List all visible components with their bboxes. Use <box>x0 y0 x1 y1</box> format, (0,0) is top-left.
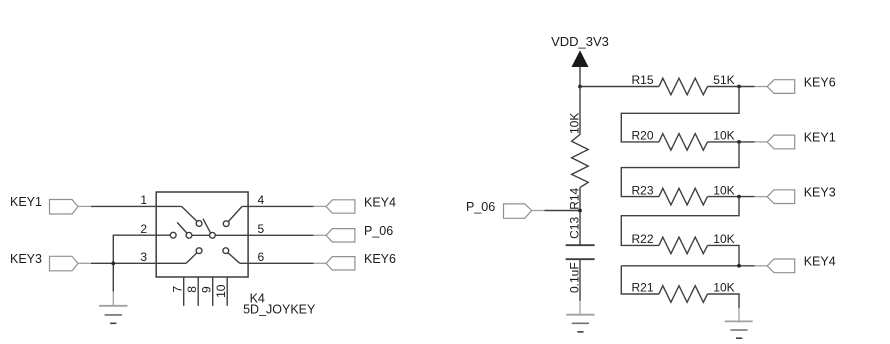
svg-text:KEY6: KEY6 <box>804 75 836 89</box>
net flag P_06 <box>466 200 545 218</box>
wire R23 node down to R22 row <box>621 197 739 246</box>
svg-text:10K: 10K <box>713 183 734 197</box>
wire R23 to KEY3 flag <box>708 196 755 198</box>
svg-text:5D_JOYKEY: 5D_JOYKEY <box>243 302 316 316</box>
wire R15 node down to R20 row <box>621 87 739 142</box>
wire R20 node down to R23 row <box>621 142 739 197</box>
resistor R15 51K <box>632 73 735 95</box>
svg-text:P_06: P_06 <box>466 200 495 214</box>
wire K4 pin 4 to KEY4 flag <box>242 205 313 207</box>
contact circle C with lever <box>203 219 215 239</box>
net flag KEY3 (right) <box>755 185 836 203</box>
common wire segment C to pin5 <box>215 234 313 236</box>
switch contact pin1 <box>182 206 203 226</box>
ground (below R21) <box>725 308 753 338</box>
K4 pin 7 <box>170 277 184 306</box>
svg-text:R20: R20 <box>632 129 654 143</box>
svg-text:KEY4: KEY4 <box>804 255 836 269</box>
svg-text:6: 6 <box>258 250 265 264</box>
svg-text:1: 1 <box>140 193 147 207</box>
ground (below C13) <box>566 301 594 332</box>
wire KEY4 row down to R21 row <box>621 266 659 294</box>
junction on KEY3 wire <box>111 262 115 266</box>
svg-text:51K: 51K <box>713 73 734 87</box>
wire R14 to capacitor C13 <box>579 188 581 246</box>
svg-text:R23: R23 <box>632 183 654 197</box>
svg-text:VDD_3V3: VDD_3V3 <box>551 34 609 49</box>
wire R20 to KEY1 flag <box>708 141 755 143</box>
switch contact pin3 <box>186 248 202 263</box>
common wire segment B-C <box>192 234 210 236</box>
svg-text:10: 10 <box>214 284 228 298</box>
svg-text:7: 7 <box>170 286 184 293</box>
svg-text:8: 8 <box>185 286 199 293</box>
net flag KEY1 <box>10 195 91 214</box>
wire KEY3 to K4 pin 3 <box>91 262 186 264</box>
svg-text:KEY3: KEY3 <box>804 185 836 199</box>
wire K4 pin 6 to KEY6 flag <box>240 262 314 264</box>
wire VDD rail down to R14 <box>579 87 581 135</box>
svg-text:R22: R22 <box>632 232 654 246</box>
net flag KEY1 (right) <box>755 131 836 149</box>
svg-text:KEY6: KEY6 <box>364 252 396 266</box>
resistor R23 10K <box>632 183 735 205</box>
wire C13 to ground <box>579 259 581 301</box>
resistor R21 10K <box>632 281 735 303</box>
svg-text:R15: R15 <box>632 73 654 87</box>
svg-text:P_06: P_06 <box>364 224 393 238</box>
svg-text:10K: 10K <box>713 129 734 143</box>
net flag P_06 (left circuit) <box>314 224 394 242</box>
wire KEY4 row <box>621 265 754 267</box>
K4 pin 10 <box>214 277 228 306</box>
wire K4 pin 2 to ground <box>113 235 156 291</box>
common wire segment A <box>156 234 170 236</box>
junction VDD rail <box>578 85 582 89</box>
net flag KEY6 <box>755 75 836 93</box>
net flag KEY4 <box>755 255 836 273</box>
capacitor C13 0.1uF <box>566 217 595 293</box>
resistor R22 10K <box>632 232 735 254</box>
ground (below K4) <box>99 292 128 324</box>
svg-text:9: 9 <box>199 286 213 293</box>
joystick K4 body <box>156 192 248 277</box>
K4 pin 8 <box>185 277 199 306</box>
svg-text:2: 2 <box>140 222 147 236</box>
net flag KEY4 (left circuit) <box>314 195 397 213</box>
junction R20 output <box>737 140 741 144</box>
svg-text:KEY4: KEY4 <box>364 195 396 209</box>
svg-text:KEY1: KEY1 <box>804 131 836 145</box>
svg-text:3: 3 <box>140 250 147 264</box>
wire R21 to ground <box>708 294 740 308</box>
contact circle A <box>170 232 176 238</box>
net flag KEY3 <box>10 252 91 271</box>
junction P_06 node <box>578 209 582 213</box>
net flag KEY6 (left circuit) <box>314 252 397 270</box>
wire KEY1 to K4 pin 1 <box>91 205 182 207</box>
wire R22 output down to KEY4 row <box>708 245 740 265</box>
switch contact pin6 <box>223 248 240 263</box>
svg-text:4: 4 <box>258 193 265 207</box>
svg-text:10K: 10K <box>713 232 734 246</box>
junction R15 output <box>737 85 741 89</box>
wire R15 to KEY6 flag <box>708 86 755 88</box>
wire P_06 to R14/C13 node <box>545 210 581 212</box>
power symbol VDD_3V3 <box>551 34 609 87</box>
resistor R14 10K (vertical) <box>568 113 589 210</box>
svg-text:R21: R21 <box>632 281 654 295</box>
svg-text:C13: C13 <box>568 217 582 239</box>
switch contact pin4 <box>223 206 242 226</box>
svg-text:5: 5 <box>258 222 265 236</box>
K4 pin 9 <box>199 277 213 306</box>
wire VDD rail to R15 <box>580 86 659 88</box>
svg-text:KEY3: KEY3 <box>10 252 42 266</box>
junction R23 output <box>737 195 741 199</box>
svg-text:10K: 10K <box>713 281 734 295</box>
contact circle B with lever <box>177 222 192 238</box>
svg-text:10K: 10K <box>568 113 582 134</box>
svg-text:KEY1: KEY1 <box>10 195 42 209</box>
resistor R20 10K <box>632 129 735 151</box>
junction KEY4 node <box>737 264 741 268</box>
